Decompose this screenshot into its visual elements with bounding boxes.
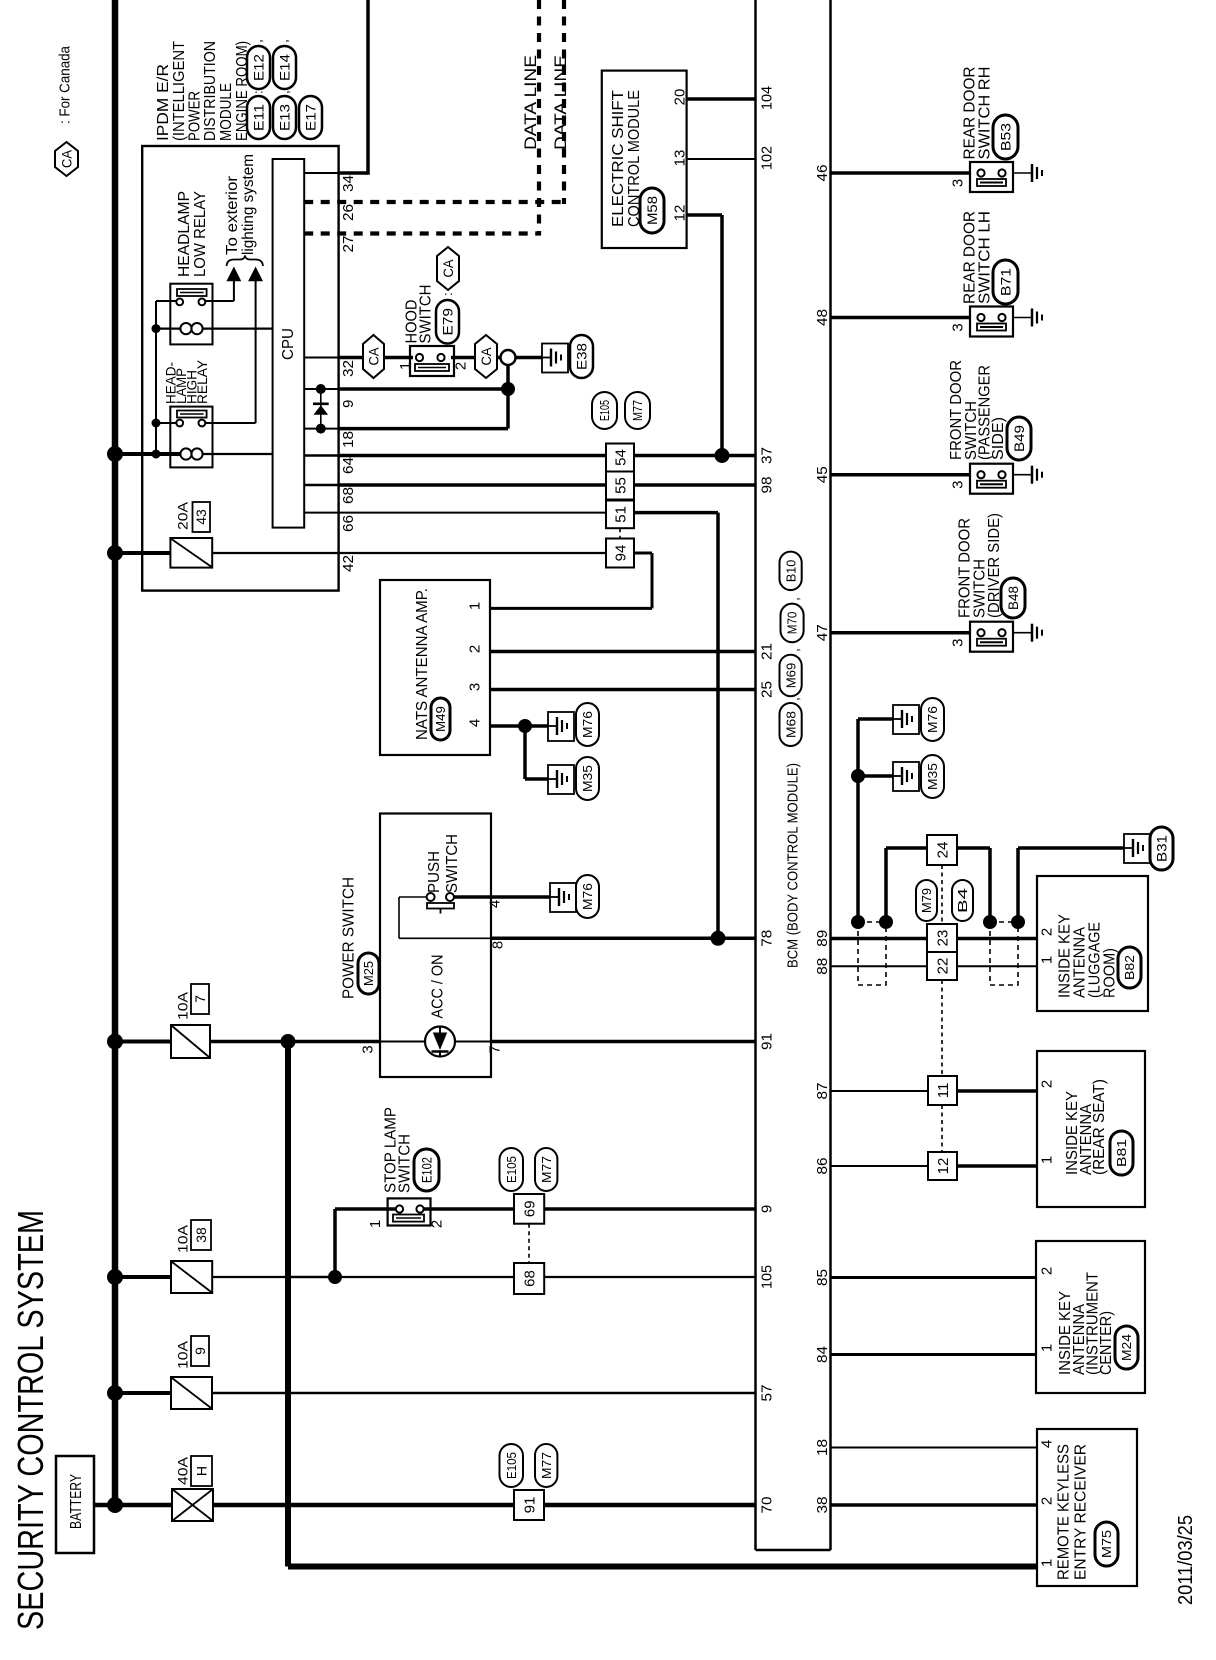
svg-text:SWITCH: SWITCH [417, 285, 434, 344]
svg-text:68: 68 [522, 1270, 539, 1287]
svg-text:M58: M58 [644, 196, 660, 225]
wire data line 26 dashed [304, 200, 566, 204]
svg-text:M69: M69 [783, 663, 798, 689]
ground rear door LH [1031, 309, 1034, 327]
wire main battery feed bus [112, 0, 119, 1505]
wire BCM 18 to keyless pin4 [831, 1447, 1038, 1449]
svg-text:M75: M75 [1099, 1530, 1114, 1558]
module remote keyless entry receiver M75 [1037, 1429, 1137, 1586]
svg-text:M77: M77 [539, 1156, 554, 1183]
svg-text:M35: M35 [580, 765, 595, 792]
svg-text:M77: M77 [630, 400, 645, 421]
wire B31 leg [1016, 848, 1020, 922]
svg-text:CA: CA [59, 149, 75, 168]
node feed-battery [107, 1497, 123, 1513]
connector M76 oval nats [576, 703, 599, 746]
wire BCM 46 to rear door switch RH [831, 171, 971, 175]
svg-text:20: 20 [671, 89, 688, 106]
connector joint 24 [927, 835, 957, 865]
wire low relay contact output to arrow [205, 300, 234, 302]
svg-text:SWITCH LH: SWITCH LH [976, 211, 993, 304]
connector E105/M77 ovals top [592, 392, 617, 429]
wire BCM 89 to luggage antenna pin2 [831, 937, 1038, 941]
connector M58 oval [640, 188, 664, 233]
svg-text:9: 9 [340, 400, 357, 408]
wire hood switch to CA right [451, 356, 475, 360]
svg-text:E105: E105 [597, 400, 612, 421]
svg-text:E79: E79 [440, 308, 456, 336]
wire ACC vertical to keyless pin1 [285, 1042, 291, 1567]
svg-text:M24: M24 [1119, 1334, 1134, 1361]
module inside key antenna instrument center M24 [1036, 1241, 1145, 1393]
brace exterior lighting [227, 256, 264, 267]
svg-text:1: 1 [367, 1220, 384, 1228]
wire high relay contact feed [156, 422, 176, 424]
svg-text:2: 2 [452, 362, 469, 370]
node M35 branch [851, 769, 865, 783]
connector joint 12 [928, 1152, 957, 1180]
svg-text:85: 85 [814, 1269, 831, 1286]
svg-text:CA: CA [440, 259, 456, 278]
wire fuseH to connector 91 [213, 1503, 514, 1508]
svg-text:ELECTRIC SHIFT: ELECTRIC SHIFT [610, 90, 627, 227]
svg-text:102: 102 [758, 146, 775, 170]
svg-text:B81: B81 [1114, 1139, 1129, 1167]
wire push switch internal to pin 8 [399, 896, 427, 898]
wire feed to relays vertical [155, 301, 157, 454]
svg-text:E38: E38 [574, 343, 590, 370]
node high-relay contact feed [152, 419, 161, 428]
fuse 40A H fusible link [115, 1503, 172, 1508]
svg-text:27: 27 [340, 236, 357, 253]
node hood ground branch [501, 382, 515, 396]
svg-text:104: 104 [758, 86, 775, 110]
wire CPU pin 34 [304, 172, 338, 174]
wire open circle to pin9 node [506, 365, 510, 389]
svg-text:(INTELLIGENT: (INTELLIGENT [171, 41, 188, 141]
svg-text:,: , [250, 39, 265, 43]
node 51wire-78wire junction [711, 931, 726, 946]
arrow to exterior lighting 2 [248, 267, 263, 282]
svg-text:38: 38 [193, 1227, 209, 1243]
wire CPU pin 18 [304, 428, 338, 430]
svg-text:88: 88 [814, 958, 831, 975]
ground B31 [1124, 834, 1150, 863]
svg-text:12: 12 [935, 1158, 952, 1175]
svg-text:7: 7 [192, 995, 208, 1003]
svg-text:70: 70 [758, 1497, 775, 1514]
svg-text:B4: B4 [955, 888, 970, 913]
connector joint 69 [514, 1194, 544, 1224]
svg-text:M76: M76 [925, 706, 940, 733]
svg-text:M35: M35 [925, 763, 940, 790]
svg-text:POWER: POWER [186, 91, 203, 141]
wire fuse43 to IPDM pin 42 [212, 552, 338, 554]
svg-text:47: 47 [814, 624, 831, 641]
wire pin9 node to pin 18 row [506, 389, 510, 429]
svg-text:M76: M76 [580, 883, 595, 910]
node feed-10A9 [107, 1385, 123, 1401]
wire CPU pin 68 row to connector 55 [304, 484, 338, 487]
node shield2 left [983, 915, 997, 929]
wire 24 to right leg [957, 846, 990, 850]
svg-text:10A: 10A [175, 991, 191, 1020]
push switch symbol [427, 893, 435, 901]
svg-text::: : [251, 90, 266, 94]
svg-text:B71: B71 [998, 268, 1014, 296]
relay headlamp high relay box [170, 407, 212, 468]
svg-text:2: 2 [1038, 1080, 1055, 1088]
low relay coil [180, 323, 191, 334]
connector joint 94 [606, 539, 634, 568]
svg-text:M76: M76 [580, 711, 595, 738]
svg-text:34: 34 [340, 175, 357, 192]
svg-text:51: 51 [612, 506, 629, 523]
ground M76 power switch [550, 883, 576, 912]
svg-text:78: 78 [758, 930, 775, 947]
wire battery to feed bus [94, 1503, 118, 1508]
svg-text:NATS ANTENNA AMP.: NATS ANTENNA AMP. [414, 588, 431, 740]
node shield1 left [851, 915, 865, 929]
svg-text:SIDE): SIDE) [990, 417, 1007, 460]
svg-text:4: 4 [486, 900, 503, 908]
svg-text:91: 91 [521, 1497, 538, 1514]
diode in IPDM [320, 389, 322, 429]
svg-text:40A: 40A [175, 1456, 191, 1485]
svg-text:2: 2 [466, 645, 483, 653]
connector joint 91 [514, 1490, 544, 1520]
ground M35 nats [548, 765, 574, 794]
relay headlamp low relay box [170, 284, 212, 345]
ground M76 bcm [893, 705, 919, 734]
svg-text:1: 1 [1038, 1156, 1055, 1164]
svg-text:18: 18 [814, 1439, 831, 1456]
node stoplamp-105 junction [328, 1270, 342, 1284]
wire BCM 45 to front door switch passenger [831, 473, 971, 477]
svg-text:20A: 20A [175, 501, 191, 530]
svg-text:E105: E105 [504, 1452, 519, 1479]
wire stop lamp pin2 to BCM 9 [424, 1207, 514, 1211]
arrow to exterior lighting 1 [226, 267, 241, 282]
node feed-relay [107, 446, 123, 462]
wire high relay coil to CPU [202, 453, 272, 455]
svg-text:105: 105 [758, 1265, 775, 1289]
connector M25 oval [358, 953, 379, 994]
svg-text:69: 69 [522, 1200, 539, 1217]
shield dashed box 1 [858, 922, 886, 985]
svg-text:43: 43 [193, 509, 209, 525]
ACC ON diode symbol [380, 1041, 426, 1043]
module BCM body control module [754, 0, 757, 1550]
connector M68 oval [780, 703, 802, 746]
svg-text:89: 89 [814, 930, 831, 947]
wire low relay coil feed [156, 328, 181, 330]
svg-text:To exterior: To exterior [224, 175, 241, 255]
low relay contact [177, 289, 207, 296]
svg-text:B82: B82 [1122, 955, 1137, 980]
wire shield left legs [884, 848, 888, 922]
svg-text:3: 3 [949, 639, 966, 647]
svg-text:42: 42 [340, 555, 357, 572]
module M58 electric shift control module [602, 71, 687, 248]
svg-text:4: 4 [1038, 1440, 1055, 1448]
svg-text:E12: E12 [251, 54, 267, 81]
svg-text:26: 26 [340, 204, 357, 221]
connector M49 oval [431, 698, 450, 740]
svg-text:,: , [277, 90, 292, 94]
svg-text:B10: B10 [783, 560, 798, 583]
connector B71 oval [993, 260, 1018, 304]
connector joint 51 [606, 501, 634, 529]
svg-text:7: 7 [486, 1045, 503, 1053]
svg-text:: For Canada: : For Canada [56, 45, 73, 124]
svg-text:SWITCH RH: SWITCH RH [976, 66, 993, 159]
svg-text:10A: 10A [175, 1224, 191, 1253]
svg-text:M77: M77 [539, 1452, 554, 1479]
svg-text:PUSH: PUSH [426, 851, 443, 893]
svg-text:DATA LINE: DATA LINE [551, 55, 570, 150]
front door switch passenger B49 [970, 464, 1013, 494]
svg-text:46: 46 [814, 165, 831, 182]
ground rear door RH [1031, 164, 1034, 182]
svg-text:18: 18 [340, 431, 357, 448]
hood switch E79 [410, 346, 454, 376]
svg-text:LOW RELAY: LOW RELAY [192, 191, 209, 277]
svg-text:91: 91 [758, 1033, 775, 1050]
wire pin34 riser to top [339, 171, 368, 175]
wire feed to high relay coil [115, 452, 181, 456]
wire stop lamp pin1 branch [288, 1276, 335, 1278]
node open circle ground junction [501, 350, 516, 365]
front door switch driver B48 [970, 622, 1013, 652]
svg-text:1: 1 [1038, 956, 1055, 964]
svg-text:RELAY: RELAY [194, 359, 210, 404]
svg-text:1: 1 [397, 362, 414, 370]
svg-text:21: 21 [758, 643, 775, 660]
connector E38 oval [570, 335, 593, 378]
wire high relay contact output to arrow [205, 422, 255, 424]
node shield2 right [1011, 915, 1025, 929]
svg-text:57: 57 [758, 1385, 775, 1402]
wire BCM 88 to luggage antenna pin1 [831, 965, 1038, 967]
svg-text:64: 64 [340, 457, 357, 474]
svg-text:B48: B48 [1005, 586, 1021, 610]
svg-text:98: 98 [758, 477, 775, 494]
symbol CA hood top [437, 247, 459, 290]
connector joint 68 [514, 1263, 544, 1294]
wire low relay contact feed [156, 300, 176, 302]
node high-relay coil feed [152, 450, 161, 459]
wire CA to ground circle [497, 356, 542, 360]
ground M76 nats [548, 712, 574, 741]
svg-text:24: 24 [934, 842, 951, 859]
connector M75 oval [1095, 1522, 1118, 1566]
svg-text:13: 13 [671, 150, 688, 167]
svg-text:87: 87 [814, 1083, 831, 1100]
svg-text:M70: M70 [785, 612, 800, 635]
svg-text:POWER SWITCH: POWER SWITCH [340, 877, 357, 999]
svg-text:,: , [787, 648, 802, 652]
node ACC branch to keyless [281, 1034, 296, 1049]
connector joint 54 [606, 444, 634, 472]
connector joint 55 [606, 472, 634, 500]
svg-text:84: 84 [814, 1346, 831, 1363]
svg-text:2011/03/25: 2011/03/25 [1175, 1515, 1197, 1605]
connector B53 oval [993, 115, 1018, 159]
svg-text:2: 2 [429, 1220, 446, 1228]
module power switch M25 [380, 814, 491, 1078]
svg-text:E14: E14 [277, 54, 293, 81]
svg-text:CPU: CPU [280, 328, 297, 360]
module inside key antenna rear seat B81 [1037, 1051, 1145, 1207]
node low-relay coil feed [152, 324, 161, 333]
battery B1 [56, 1456, 94, 1553]
note CA : For Canada symbol [55, 142, 78, 176]
connector E13 [273, 96, 296, 139]
connector M76 oval bcm [921, 698, 944, 741]
svg-text:E17: E17 [303, 104, 319, 131]
svg-text:M79: M79 [919, 888, 934, 913]
connector joint 23 [927, 924, 957, 952]
svg-text:E11: E11 [251, 104, 267, 131]
svg-text:CENTER): CENTER) [1098, 1311, 1115, 1375]
wire BCM 38 to keyless pin2 [831, 1503, 1038, 1507]
connector B10 oval [780, 552, 802, 591]
svg-text:37: 37 [758, 447, 775, 464]
svg-text:12: 12 [671, 205, 688, 222]
svg-text:48: 48 [814, 309, 831, 326]
wire ground branch M76/M35 bcm [856, 719, 860, 922]
CPU box [273, 159, 305, 528]
rear door switch LH B71 [970, 307, 1013, 337]
svg-text:54: 54 [612, 449, 629, 466]
wire BCM 86 to rear seat antenna pin1 [831, 1165, 929, 1167]
high relay coil [180, 448, 191, 459]
svg-text:3: 3 [466, 683, 483, 691]
svg-text:MODULE: MODULE [218, 83, 235, 141]
connector M70 oval [781, 604, 804, 643]
svg-text:CA: CA [478, 347, 494, 366]
svg-text:8: 8 [489, 941, 506, 949]
wire BCM 48 to rear door switch LH [831, 316, 971, 320]
node nats ground split [518, 719, 532, 733]
svg-text:2: 2 [1038, 1267, 1055, 1275]
ground E38 [542, 344, 568, 373]
connector M35 oval nats [576, 757, 599, 800]
svg-text:9: 9 [758, 1205, 775, 1213]
dashed link 24-23 [941, 865, 943, 924]
wire 54 to BCM pin 37 [634, 454, 756, 458]
connector joint 11 [928, 1076, 957, 1105]
svg-text:lighting system: lighting system [240, 154, 257, 255]
svg-text:,: , [276, 39, 291, 43]
wire CPU pin 9 [304, 388, 338, 390]
connector B49 oval [1007, 417, 1031, 460]
wire 55 to BCM pin 98 [634, 483, 756, 487]
wire fuse38 to connector 68 to BCM 105 [212, 1276, 514, 1278]
svg-text:3: 3 [949, 179, 966, 187]
wire CPU pin 66 row to connector 51 [304, 512, 338, 514]
svg-text:4: 4 [466, 719, 483, 727]
wire 91 to BCM pin 70 [544, 1503, 756, 1508]
wire 51 corner to BCM78 node [634, 511, 718, 515]
svg-text:SWITCH: SWITCH [444, 834, 461, 893]
connector joint 22 [927, 952, 957, 980]
dashed link 11-12 [941, 1105, 943, 1152]
svg-text:E102: E102 [419, 1157, 435, 1183]
svg-text:38: 38 [814, 1497, 831, 1514]
wire 69 to BCM pin 9 [544, 1207, 755, 1211]
node shield1 right [879, 915, 893, 929]
svg-text:86: 86 [814, 1158, 831, 1175]
node feed-10A38 [107, 1269, 123, 1285]
ground front door driver [1031, 624, 1034, 642]
dashed link 51-94 [619, 528, 621, 538]
connector B48 oval [1001, 578, 1025, 618]
module NATS antenna amp M49 [380, 580, 490, 755]
symbol CA hood left [363, 335, 384, 378]
wire BCM 87 to rear seat antenna pin2 [831, 1090, 929, 1092]
svg-text:BATTERY: BATTERY [68, 1474, 85, 1529]
svg-text:1: 1 [466, 602, 483, 610]
connector E14 [273, 46, 296, 89]
ground front door passenger [1031, 466, 1034, 484]
svg-text:B31: B31 [1154, 835, 1170, 862]
wire fuse9 to BCM 57 [212, 1392, 756, 1394]
wire data line 27 dashed [304, 231, 541, 235]
wire BCM 47 to front door switch driver [831, 631, 971, 635]
dashed link 69-68 [528, 1224, 530, 1263]
svg-text:SECURITY CONTROL SYSTEM: SECURITY CONTROL SYSTEM [10, 1210, 51, 1630]
svg-text:H: H [194, 1466, 210, 1476]
svg-text:M49: M49 [433, 706, 448, 732]
svg-text:HEADLAMP: HEADLAMP [176, 191, 193, 277]
connector B81 oval [1110, 1131, 1133, 1175]
connector M35 oval bcm [921, 755, 944, 798]
wire BCM 84 to instrument antenna pin1 [831, 1353, 1037, 1356]
connector M77 oval battery row [535, 1444, 557, 1487]
svg-text:23: 23 [934, 930, 951, 947]
svg-text:DATA LINE: DATA LINE [521, 55, 540, 150]
svg-text:DISTRIBUTION: DISTRIBUTION [202, 41, 219, 141]
connector E102 oval [414, 1149, 439, 1191]
svg-text:,: , [787, 697, 802, 701]
connector E105 oval stop [500, 1148, 524, 1191]
svg-text:25: 25 [758, 681, 775, 698]
svg-text:94: 94 [612, 545, 629, 562]
wire CPU pin 64 row to connector 54 [304, 454, 338, 457]
svg-text:E13: E13 [277, 104, 293, 131]
svg-text:3: 3 [949, 323, 966, 331]
svg-text:ACC / ON: ACC / ON [429, 955, 446, 1019]
svg-text:REMOTE KEYLESS: REMOTE KEYLESS [1055, 1444, 1072, 1580]
symbol CA hood right [475, 335, 497, 378]
fuse 10A 38 [115, 1275, 171, 1279]
shield dashed box 2 [990, 922, 1018, 985]
svg-text::: : [440, 292, 455, 296]
rear door switch RH B53 [970, 162, 1013, 192]
svg-text:,: , [787, 597, 802, 601]
svg-text:B49: B49 [1011, 425, 1027, 452]
module inside key antenna luggage room B82 [1037, 876, 1148, 1011]
node feed-20A [107, 545, 123, 561]
svg-text:SWITCH: SWITCH [396, 1134, 413, 1193]
svg-text:55: 55 [612, 477, 629, 494]
wire low relay coil to CPU [202, 328, 272, 330]
connector B31 oval [1150, 827, 1173, 870]
connector E11 [247, 96, 270, 139]
connector E79 oval [436, 300, 459, 344]
